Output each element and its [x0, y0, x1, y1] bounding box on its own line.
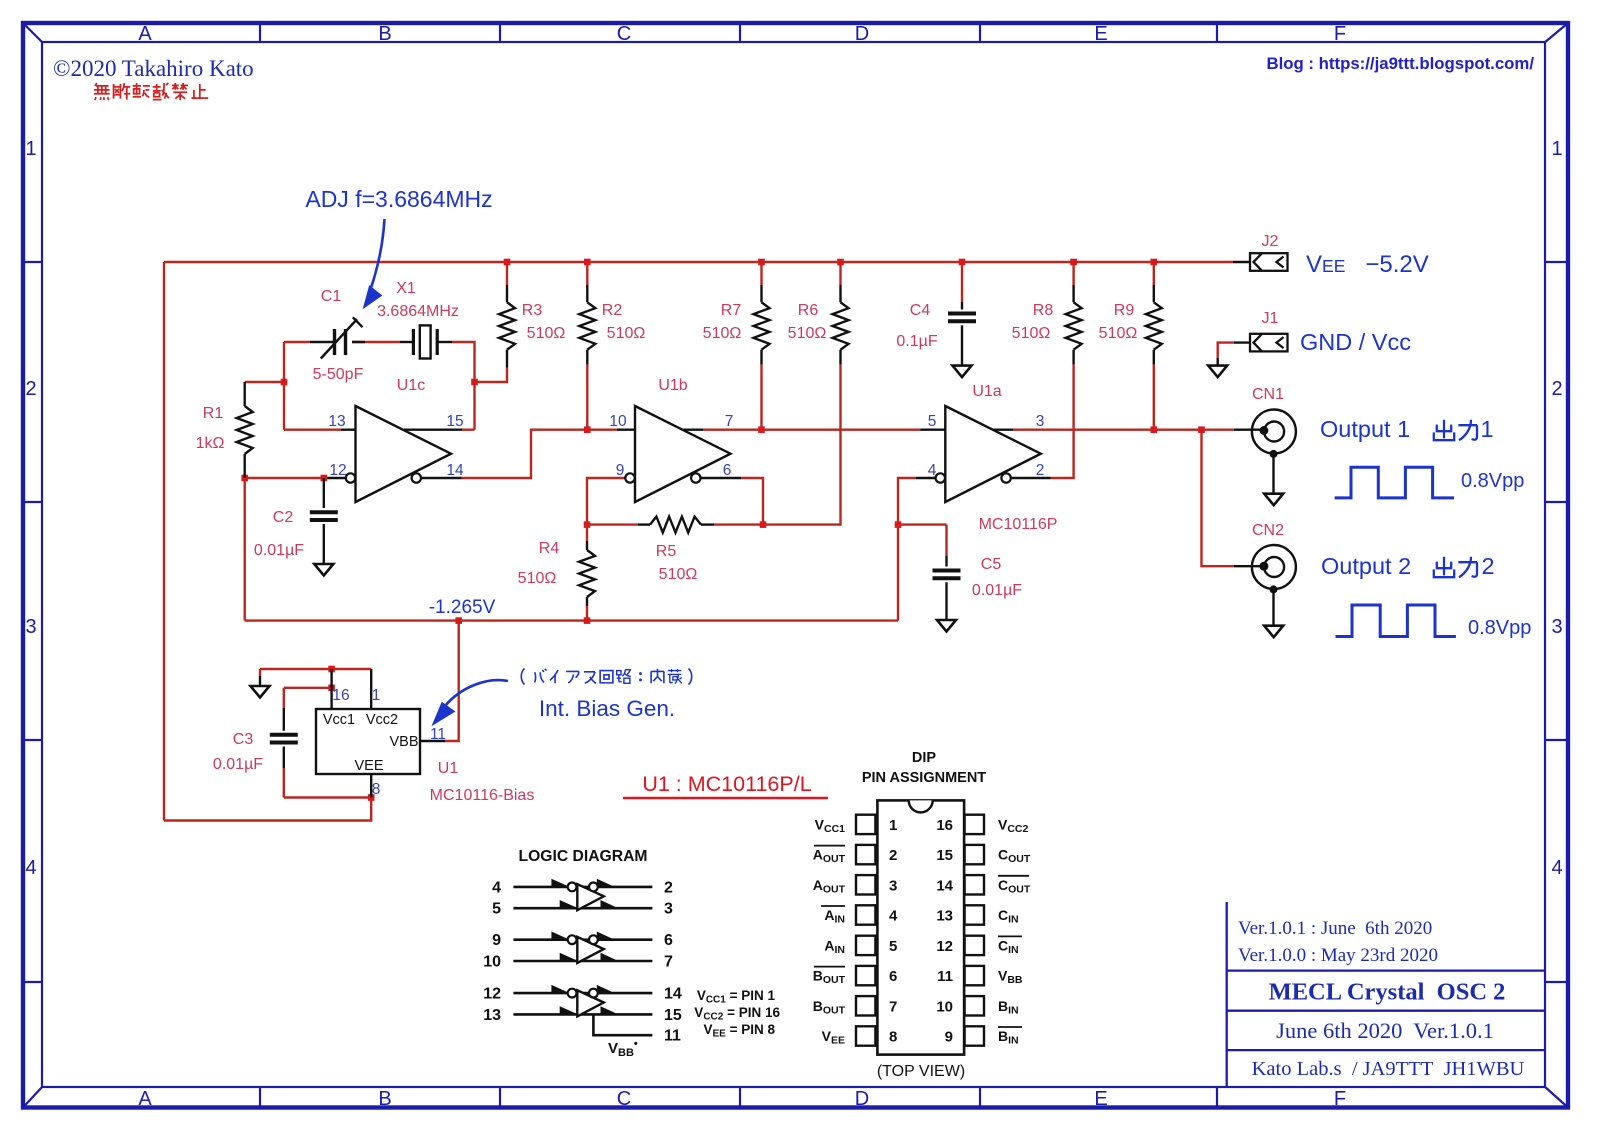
DIP heading [862, 750, 986, 786]
wire R5 right to pin6 [741, 478, 763, 525]
svg-text:510Ω: 510Ω [788, 325, 827, 342]
svg-text:Blog : https://ja9ttt.blogspot: Blog : https://ja9ttt.blogspot.com/ [1266, 54, 1534, 73]
wire C1-X1 link [352, 341, 400, 343]
wire Vcc stub tie [260, 668, 371, 670]
svg-text:June 6th 2020 Ver.1.0.1: June 6th 2020 Ver.1.0.1 [1276, 1018, 1494, 1043]
svg-text:R1: R1 [203, 405, 224, 422]
bias VBB lead [420, 740, 445, 742]
svg-text:R4: R4 [539, 540, 560, 557]
svg-text:C: C [617, 1088, 631, 1110]
svg-text:D: D [855, 23, 869, 45]
svg-text:B: B [378, 1088, 391, 1110]
svg-text:U1b: U1b [658, 377, 687, 394]
svg-text:-1.265V: -1.265V [429, 597, 496, 618]
svg-text:VBB: VBB [389, 734, 418, 750]
svg-text:R6: R6 [798, 302, 819, 319]
wire C5 top lead red [945, 525, 947, 556]
wire C1 left stub [284, 341, 310, 343]
frame zone letters bottom [138, 1088, 1346, 1110]
wire R6 bottom long [763, 364, 841, 524]
bias pin1 stub [370, 669, 372, 709]
svg-text:10: 10 [609, 413, 627, 430]
svg-text:MECL Crystal OSC 2: MECL Crystal OSC 2 [1269, 979, 1506, 1006]
svg-text:11: 11 [937, 968, 953, 985]
svg-text:Output 1: Output 1 [1320, 416, 1410, 442]
svg-text:C: C [617, 23, 631, 45]
svg-text:C2: C2 [273, 509, 294, 526]
svg-text:15: 15 [936, 847, 953, 864]
svg-text:0.8Vpp: 0.8Vpp [1461, 470, 1524, 492]
waveform 1 [1335, 467, 1454, 498]
svg-text:C5: C5 [981, 556, 1002, 573]
svg-text:A: A [138, 1088, 152, 1110]
svg-text:0.01µF: 0.01µF [972, 582, 1022, 599]
svg-text:510Ω: 510Ω [703, 325, 742, 342]
BNC connector CN1 [1234, 410, 1296, 494]
svg-text:7: 7 [889, 998, 897, 1015]
svg-text:R2: R2 [602, 302, 623, 319]
svg-text:510Ω: 510Ω [518, 570, 557, 587]
svg-text:MC10116P: MC10116P [979, 516, 1058, 533]
svg-text:1: 1 [25, 138, 36, 160]
svg-text:4: 4 [889, 908, 898, 925]
svg-text:0.01µF: 0.01µF [254, 542, 304, 559]
svg-text:15: 15 [446, 413, 463, 430]
resistor R8 [1066, 285, 1082, 364]
ADJ arrow [364, 219, 385, 308]
svg-text:1kΩ: 1kΩ [196, 435, 225, 452]
blue kanji: bias circuit built-in note [521, 668, 691, 684]
title block lines [1227, 902, 1545, 1088]
svg-text:6: 6 [889, 968, 897, 985]
svg-text:D: D [855, 1088, 869, 1110]
kanji: output1 [1434, 420, 1477, 440]
svg-text:Ver.1.0.1 : June 6th 2020: Ver.1.0.1 : June 6th 2020 [1238, 918, 1432, 939]
svg-text:14: 14 [664, 986, 682, 1003]
wire pin12 node horizontal [245, 477, 327, 479]
wire C3 vertical bottom [283, 768, 285, 798]
svg-text:Ver.1.0.0 : May 23rd 2020: Ver.1.0.0 : May 23rd 2020 [1238, 945, 1438, 966]
svg-text:10: 10 [483, 954, 501, 971]
svg-text:10: 10 [936, 998, 953, 1015]
resistor R9 [1146, 285, 1162, 364]
svg-text:14: 14 [936, 877, 953, 894]
U1 : MC10116P/L heading [623, 772, 828, 798]
wire rail up to pin12 node [243, 478, 245, 621]
svg-text:U1 : MC10116P/L: U1 : MC10116P/L [642, 772, 811, 796]
svg-text:J1: J1 [1262, 310, 1279, 327]
wire R2 bottom to pin10 [586, 364, 588, 429]
svg-text:7: 7 [725, 413, 734, 430]
wire R9 bottom lead red [1153, 364, 1155, 429]
svg-text:1: 1 [889, 817, 897, 834]
svg-text:CN1: CN1 [1252, 386, 1284, 403]
VCC pin notes [694, 988, 780, 1040]
svg-text:4: 4 [928, 462, 937, 479]
wire VEE to bias VEE pin [164, 798, 371, 821]
svg-text:12: 12 [329, 462, 346, 479]
wire node to R3 [475, 368, 508, 382]
svg-text:2: 2 [889, 847, 897, 864]
svg-text:14: 14 [446, 462, 464, 479]
wire VBB vertical [445, 621, 459, 741]
svg-text:E: E [1094, 23, 1107, 45]
ground below C5 [937, 620, 956, 632]
svg-text:9: 9 [945, 1029, 953, 1046]
buffer gate U1c [327, 406, 462, 502]
svg-text:12: 12 [483, 986, 501, 1003]
svg-text:0.8Vpp: 0.8Vpp [1468, 617, 1531, 639]
wire pin7 to U1a pin5 [703, 429, 920, 431]
kanji: output2 [1434, 557, 1477, 577]
svg-text:8: 8 [889, 1029, 897, 1046]
svg-text:13: 13 [328, 413, 345, 430]
svg-text:16: 16 [936, 817, 953, 834]
bias pin8 stub [370, 774, 372, 798]
svg-text:5-50pF: 5-50pF [313, 366, 364, 383]
svg-text:1: 1 [1480, 416, 1493, 442]
svg-text:1: 1 [1551, 138, 1562, 160]
wire R3 top lead red [506, 262, 508, 285]
svg-text:5: 5 [889, 938, 897, 955]
svg-text:7: 7 [664, 954, 673, 971]
svg-text:510Ω: 510Ω [527, 325, 566, 342]
svg-text:3.6864MHz: 3.6864MHz [377, 303, 459, 320]
ground at CN1 [1264, 494, 1283, 506]
bias block U1 box [316, 709, 420, 774]
bias arrow [433, 680, 509, 725]
wire left VEE vertical [163, 262, 165, 821]
svg-text:C3: C3 [233, 731, 254, 748]
svg-text:Output 2: Output 2 [1321, 553, 1411, 579]
logic gate B (9,10 -> 6,7) [483, 932, 673, 971]
svg-text:Kato Lab.s / JA9TTT JH1WBU: Kato Lab.s / JA9TTT JH1WBU [1252, 1058, 1525, 1080]
svg-text:3: 3 [889, 877, 897, 894]
wire R2 top lead red [586, 262, 588, 285]
svg-text:3: 3 [1036, 413, 1045, 430]
ground below C2 [314, 564, 333, 576]
wire R4 bottom lead red [586, 606, 588, 621]
wire R4 top lead red [586, 525, 588, 541]
wire pin3 output run [1013, 429, 1234, 431]
frame column dividers [260, 23, 1217, 1106]
svg-text:15: 15 [664, 1007, 682, 1024]
svg-text:DIP: DIP [912, 750, 937, 766]
wire C3 bottom to pin8 [284, 796, 371, 798]
svg-text:11: 11 [430, 726, 446, 743]
svg-text:F: F [1334, 1088, 1346, 1110]
ground below C4 [953, 366, 972, 378]
resistor R4 [579, 541, 595, 606]
BNC connector CN2 [1234, 545, 1296, 626]
wire C3 vertical top [283, 688, 285, 708]
frame zone letters top [138, 23, 1346, 45]
ground at J1 [1208, 358, 1227, 377]
DIP pin numbers [889, 817, 954, 1046]
svg-text:3: 3 [25, 616, 36, 638]
svg-text:©2020 Takahiro Kato: ©2020 Takahiro Kato [53, 56, 254, 81]
svg-text:R8: R8 [1033, 302, 1054, 319]
svg-text:ADJ f=3.6864MHz: ADJ f=3.6864MHz [305, 186, 492, 212]
svg-text:9: 9 [616, 462, 625, 479]
version history lines [1238, 918, 1438, 966]
resistor R2 [579, 285, 595, 364]
svg-text:CN2: CN2 [1252, 522, 1284, 539]
frame row dividers [21, 262, 1568, 982]
svg-text:9: 9 [492, 932, 501, 949]
svg-text:U1: U1 [438, 760, 459, 777]
DIP left pin labels [813, 816, 846, 1046]
svg-text:R7: R7 [721, 302, 742, 319]
wire gnd drop at bias [259, 669, 261, 676]
svg-text:4: 4 [1551, 857, 1562, 879]
svg-text:PIN ASSIGNMENT: PIN ASSIGNMENT [862, 770, 986, 786]
capacitor C3 [270, 708, 298, 768]
bias pin16 stub [330, 669, 332, 709]
svg-text:8: 8 [372, 781, 381, 798]
svg-text:1: 1 [372, 687, 381, 704]
logic gate A (4,5 -> 2,3) [492, 879, 673, 918]
connector J2 [1233, 253, 1288, 271]
DIP body [877, 800, 964, 1054]
wire pin2 to R8 [1051, 364, 1074, 478]
wire R7 bottom to pin7 wire [760, 364, 762, 429]
DIP pin squares right [965, 815, 984, 1046]
svg-text:C4: C4 [910, 302, 931, 319]
svg-text:13: 13 [936, 908, 953, 925]
svg-text:5: 5 [492, 901, 501, 918]
svg-text:R3: R3 [522, 302, 543, 319]
svg-text:GND / Vcc: GND / Vcc [1300, 329, 1411, 355]
svg-text:13: 13 [483, 1007, 501, 1024]
svg-text:X1: X1 [396, 280, 416, 297]
capacitor C2 [310, 478, 338, 564]
wire pin15 red segment [462, 429, 475, 431]
svg-text:2: 2 [664, 879, 673, 896]
wire CN2 branch [1202, 430, 1234, 567]
svg-text:VEE: VEE [354, 758, 383, 774]
capacitor C5 [933, 556, 961, 620]
wire R9 top lead red [1153, 262, 1155, 285]
svg-text:MC10116-Bias: MC10116-Bias [430, 787, 535, 804]
svg-text:510Ω: 510Ω [1012, 325, 1051, 342]
svg-text:R5: R5 [656, 543, 677, 560]
svg-text:B: B [378, 23, 391, 45]
svg-text:A: A [138, 23, 152, 45]
logic gate C (12,13 -> 14,15) + VBB pin 11 [483, 985, 682, 1059]
svg-text:U1a: U1a [972, 383, 1001, 400]
svg-text:11: 11 [664, 1028, 681, 1045]
wire R8 top lead red [1072, 262, 1074, 285]
svg-text:6: 6 [723, 462, 732, 479]
svg-text:510Ω: 510Ω [607, 325, 646, 342]
wire pin14 to U1b pin10 [462, 430, 617, 478]
svg-text:Int. Bias Gen.: Int. Bias Gen. [539, 696, 675, 721]
wire C4 top lead red [961, 262, 963, 302]
svg-text:Vcc1: Vcc1 [323, 712, 355, 728]
svg-text:5: 5 [928, 413, 937, 430]
svg-text:E: E [1094, 1088, 1107, 1110]
wire X1 right to node [452, 342, 475, 430]
svg-text:LOGIC DIAGRAM: LOGIC DIAGRAM [519, 848, 648, 865]
ground at bias Vcc [251, 676, 270, 698]
buffer gate U1a [916, 406, 1051, 502]
svg-text:2: 2 [1551, 378, 1562, 400]
wire C1 left vertical [283, 342, 285, 430]
svg-text:2: 2 [25, 378, 36, 400]
svg-text:3: 3 [1551, 616, 1562, 638]
resistor R3 [499, 285, 515, 368]
svg-text:12: 12 [936, 938, 953, 955]
crystal X1 [400, 325, 452, 358]
svg-text:0.01µF: 0.01µF [213, 756, 263, 773]
svg-text:16: 16 [332, 687, 349, 704]
svg-text:F: F [1334, 23, 1346, 45]
svg-text:4: 4 [492, 879, 501, 896]
svg-text:510Ω: 510Ω [659, 566, 698, 583]
wire R7 top lead red [760, 262, 762, 285]
frame zone numbers left [25, 138, 36, 879]
resistor R1 [237, 382, 253, 478]
svg-text:Vcc2: Vcc2 [366, 712, 398, 728]
svg-text:0.1µF: 0.1µF [896, 333, 937, 350]
ground at CN2 [1264, 626, 1283, 638]
waveform 2 [1336, 605, 1456, 637]
red kanji: do-not-repost notice [94, 83, 208, 100]
wire J1 link red [1218, 343, 1234, 358]
wire R5 right red [714, 523, 763, 525]
wire R6 top lead red [839, 262, 841, 285]
svg-text:510Ω: 510Ω [1099, 325, 1138, 342]
svg-text:R9: R9 [1114, 302, 1135, 319]
DIP right pin labels [998, 816, 1031, 1046]
svg-text:VEE −5.2V: VEE −5.2V [1306, 251, 1429, 278]
svg-text:6: 6 [664, 932, 673, 949]
wire pin9 loop [587, 478, 625, 525]
svg-text:C1: C1 [321, 288, 342, 305]
buffer gate U1b [617, 406, 741, 502]
resistor R5 [638, 517, 714, 533]
svg-text:U1c: U1c [397, 377, 425, 394]
frame zone numbers right [1551, 138, 1562, 879]
svg-text:3: 3 [664, 901, 673, 918]
wire pin13 horizontal [284, 429, 341, 431]
svg-text:(TOP VIEW): (TOP VIEW) [877, 1063, 965, 1080]
capacitor C1 (variable 5-50pF) [310, 317, 365, 358]
wire R1 top link [245, 381, 284, 383]
wire VEE top bus [164, 261, 1233, 263]
wire VBB rail -1.265V [245, 619, 898, 621]
svg-text:2: 2 [1036, 462, 1045, 479]
wire C3 top branch [284, 687, 332, 689]
svg-text:2: 2 [1481, 553, 1494, 579]
wire R5 left red [587, 523, 638, 525]
connector J1 [1234, 334, 1288, 352]
resistor R6 [833, 285, 849, 364]
resistor R7 [754, 285, 770, 364]
wire C5 branch [898, 523, 947, 525]
DIP pin squares left [856, 815, 875, 1046]
svg-text:4: 4 [25, 857, 36, 879]
wire pin4 bias drop [898, 478, 916, 621]
svg-text:J2: J2 [1262, 233, 1279, 250]
capacitor C4 [948, 302, 976, 366]
